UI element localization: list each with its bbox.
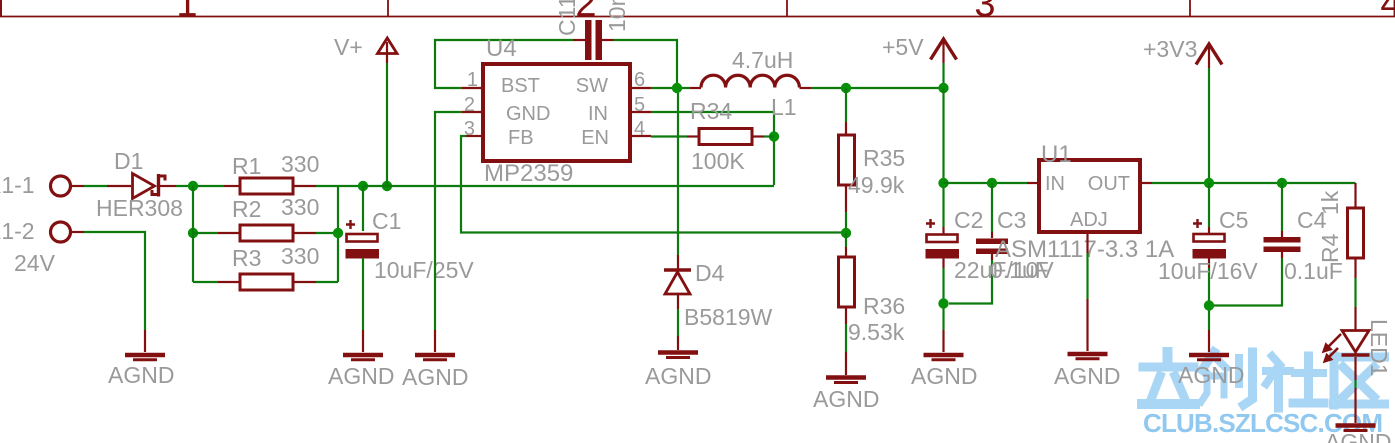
wire R35 bottom lead xyxy=(845,185,847,212)
wire D4 branch xyxy=(677,93,679,255)
wire +5V to U1 IN xyxy=(944,182,1028,184)
ground AGND (LED1) xyxy=(1336,426,1376,431)
svg-text:330: 330 xyxy=(281,194,319,220)
svg-text:49.9k: 49.9k xyxy=(848,172,905,198)
svg-text:+3V3: +3V3 xyxy=(1143,36,1197,62)
svg-text:R3: R3 xyxy=(232,245,261,271)
wire node A vertical xyxy=(192,186,194,282)
svg-text:C3: C3 xyxy=(997,207,1026,233)
svg-text:V+: V+ xyxy=(334,34,363,60)
inductor L1 xyxy=(701,75,799,87)
capacitor C11 xyxy=(585,20,602,60)
ic U1 box xyxy=(1039,160,1140,232)
wire R35 top lead xyxy=(845,88,847,122)
resistor R4 xyxy=(1348,208,1364,258)
svg-text:6: 6 xyxy=(634,69,645,91)
ground AGND (R36) xyxy=(826,378,866,383)
svg-text:5: 5 xyxy=(634,94,645,116)
capacitor C5 xyxy=(1193,183,1227,352)
power symbol +5V xyxy=(931,39,957,88)
svg-text:C2: C2 xyxy=(954,207,983,233)
wire R36 to AGND xyxy=(845,307,847,324)
junction C3 ground tie xyxy=(938,298,948,308)
junction C5 C4 ground tie xyxy=(1204,300,1214,310)
wire L1 to +5V xyxy=(800,87,812,89)
frame tick x=787 xyxy=(786,0,788,17)
svg-text:4.7uH: 4.7uH xyxy=(732,47,793,73)
pin 5 IN stub xyxy=(632,111,651,113)
wire R3 left lead xyxy=(193,281,218,283)
wire D4 to AGND xyxy=(677,295,679,309)
capacitor C2 xyxy=(926,219,960,352)
wire ADJ to AGND xyxy=(1086,232,1088,253)
pin 4 EN stub xyxy=(632,135,651,137)
pin 1 BST stub xyxy=(462,87,481,89)
wire R1 left lead xyxy=(224,185,240,187)
svg-text:IN: IN xyxy=(1045,173,1065,195)
diode D4 xyxy=(664,270,691,294)
svg-text:HER308: HER308 xyxy=(96,195,183,221)
svg-text:R34: R34 xyxy=(690,98,732,124)
frame tick x=1190 xyxy=(1189,0,1191,17)
wire input rail xyxy=(363,185,774,187)
svg-text:9.53k: 9.53k xyxy=(848,319,905,345)
ground AGND (input) xyxy=(125,355,165,360)
connector pin X1-1 xyxy=(51,176,71,196)
node A junction xyxy=(188,181,198,191)
junction C4 tap xyxy=(1277,178,1287,188)
svg-text:U4: U4 xyxy=(486,35,517,62)
svg-text:1k: 1k xyxy=(1317,190,1343,215)
svg-text:24V: 24V xyxy=(14,250,56,276)
junction R34 to IN riser xyxy=(769,131,779,141)
svg-text:3: 3 xyxy=(974,0,995,25)
svg-text:10n: 10n xyxy=(604,0,630,32)
junction SW/R35 xyxy=(841,83,851,93)
svg-text:SW: SW xyxy=(576,75,608,97)
ground AGND (C1) xyxy=(343,355,383,360)
svg-text:OUT: OUT xyxy=(1088,173,1130,195)
svg-text:AGND: AGND xyxy=(402,364,468,390)
svg-text:LED1: LED1 xyxy=(1366,319,1392,377)
wire IN riser xyxy=(651,112,774,185)
wire SW node xyxy=(651,87,690,89)
resistor R1 xyxy=(240,178,293,194)
svg-text:10uF/16V: 10uF/16V xyxy=(1158,258,1258,284)
diode D1 xyxy=(133,174,166,199)
wire right parallel vertical xyxy=(337,186,339,282)
resistor R3 xyxy=(240,274,293,290)
watermark logo 立创社区 xyxy=(1142,352,1385,408)
svg-text:AGND: AGND xyxy=(1325,429,1391,443)
junction FB divider xyxy=(841,228,851,238)
svg-text:U1: U1 xyxy=(1041,141,1072,168)
connector pin X1-2 xyxy=(51,222,71,242)
wire R3 right lead xyxy=(293,281,316,283)
wire +5V column xyxy=(942,88,944,227)
resistor R36 xyxy=(839,257,855,307)
svg-text:MP2359: MP2359 xyxy=(484,160,573,187)
junction C3 tap xyxy=(987,178,997,188)
junction C5 tap xyxy=(1204,178,1214,188)
svg-text:C5: C5 xyxy=(1219,207,1248,233)
wire BST bootstrap loop xyxy=(435,40,573,88)
svg-text:D4: D4 xyxy=(695,260,725,286)
svg-text:GND: GND xyxy=(506,103,550,125)
svg-text:BST: BST xyxy=(501,75,540,97)
ground AGND (+5V) xyxy=(924,355,964,360)
sheet frame horizontal line xyxy=(0,16,1395,18)
pin 6 SW stub xyxy=(632,87,651,89)
wire R2 right lead xyxy=(293,232,316,234)
svg-text:X1-1: X1-1 xyxy=(0,172,35,198)
svg-text:1: 1 xyxy=(467,69,478,91)
wire GND to AGND xyxy=(435,112,462,330)
wire R1 right lead xyxy=(293,185,316,187)
svg-text:L1: L1 xyxy=(771,94,797,120)
wire rail to R4 xyxy=(1354,183,1356,208)
wire FB to divider xyxy=(461,136,846,233)
ground AGND (U4) xyxy=(415,355,455,360)
junction +5V to U1 xyxy=(938,178,948,188)
resistor R2 xyxy=(240,225,293,241)
junction C1 tap xyxy=(358,181,368,191)
ground AGND (D4) xyxy=(658,353,698,358)
svg-text:AGND: AGND xyxy=(813,386,879,412)
svg-text:ASM1117-3.3 1A: ASM1117-3.3 1A xyxy=(995,236,1174,263)
svg-text:AGND: AGND xyxy=(108,362,174,388)
svg-text:100K: 100K xyxy=(691,148,745,174)
wire D1 to node A xyxy=(160,185,176,187)
svg-text:ADJ: ADJ xyxy=(1070,209,1108,231)
junction V+ tap xyxy=(382,181,392,191)
capacitor C3 xyxy=(949,183,1008,304)
ground AGND (U1 ADJ) xyxy=(1068,354,1108,359)
wire R36 top lead xyxy=(845,233,847,247)
svg-text:R4: R4 xyxy=(1317,233,1343,263)
pin 2 GND stub xyxy=(462,111,481,113)
svg-text:AGND: AGND xyxy=(1178,362,1244,388)
ic U4 box xyxy=(483,64,630,161)
svg-text:2: 2 xyxy=(464,94,475,116)
ground AGND (+3V3) xyxy=(1189,355,1229,360)
power symbol V+ xyxy=(378,38,398,186)
svg-text:AGND: AGND xyxy=(328,363,394,389)
svg-text:D1: D1 xyxy=(114,148,143,174)
frame tick x=388 xyxy=(387,0,389,17)
wire X1-2 to AGND xyxy=(71,231,84,233)
svg-text:FB: FB xyxy=(508,127,534,149)
wire EN to R34 xyxy=(651,135,687,137)
svg-text:R1: R1 xyxy=(232,153,261,179)
junction R2 right xyxy=(333,228,343,238)
wire OUT to +3V3 rail xyxy=(1140,182,1152,184)
led LED1 xyxy=(1342,331,1370,356)
led LED1 emission arrows xyxy=(1323,334,1342,363)
wire R34 right lead xyxy=(752,135,764,137)
svg-text:R35: R35 xyxy=(863,145,905,171)
junction node A row2 xyxy=(188,228,198,238)
svg-text:X1-2: X1-2 xyxy=(0,218,35,244)
wire LED1 to AGND xyxy=(1354,357,1356,380)
power symbol +3V3 xyxy=(1196,44,1222,183)
svg-text:B5819W: B5819W xyxy=(684,304,773,330)
svg-text:4: 4 xyxy=(1380,0,1395,25)
wire R2 left lead xyxy=(193,232,218,234)
wire X1-1 to D1 xyxy=(71,185,84,187)
junction SW xyxy=(672,83,682,93)
resistor R34 xyxy=(699,129,752,145)
svg-text:AGND: AGND xyxy=(645,363,711,389)
svg-text:4: 4 xyxy=(634,118,645,140)
svg-text:330: 330 xyxy=(281,151,319,177)
svg-text:1: 1 xyxy=(176,0,197,25)
svg-text:+5V: +5V xyxy=(882,34,924,60)
svg-text:10uF/25V: 10uF/25V xyxy=(374,257,474,283)
svg-text:R36: R36 xyxy=(863,293,905,319)
wire R4 to LED1 xyxy=(1354,258,1356,278)
frame tick left edge xyxy=(0,0,2,17)
resistor R35 xyxy=(839,135,855,185)
pin 3 FB stub xyxy=(466,135,481,137)
junction +5V rail xyxy=(938,83,948,93)
svg-text:EN: EN xyxy=(581,127,609,149)
svg-text:AGND: AGND xyxy=(1054,363,1120,389)
svg-text:330: 330 xyxy=(281,243,319,269)
svg-text:C1: C1 xyxy=(372,208,401,234)
svg-text:IN: IN xyxy=(588,103,608,125)
svg-text:C11: C11 xyxy=(554,0,580,36)
svg-text:AGND: AGND xyxy=(911,363,977,389)
capacitor C1 xyxy=(346,186,380,352)
capacitor C4 xyxy=(1214,183,1301,306)
svg-text:R2: R2 xyxy=(232,196,261,222)
